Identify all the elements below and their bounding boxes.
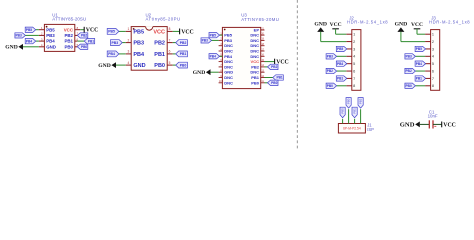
wire U3 PB0 — [265, 82, 268, 84]
svg-text:PB4: PB4 — [337, 62, 343, 66]
svg-text:PB5: PB5 — [46, 27, 55, 32]
svg-text:6: 6 — [353, 69, 355, 73]
U3 pin names — [224, 28, 260, 86]
svg-text:DNC: DNC — [250, 33, 259, 38]
svg-text:PB1: PB1 — [180, 52, 187, 56]
svg-text:GND: GND — [193, 70, 205, 76]
svg-text:DNC: DNC — [250, 38, 259, 43]
svg-text:PB2: PB2 — [81, 34, 87, 38]
J3 pins 1-8 with pin numbers — [425, 33, 434, 89]
svg-text:6: 6 — [432, 69, 434, 73]
wire GND to J2.2 — [321, 32, 347, 42]
wire U2.1 — [119, 30, 126, 32]
section divider (dashed) — [296, 0, 298, 150]
svg-text:PB3: PB3 — [112, 41, 119, 45]
svg-text:VCC: VCC — [411, 22, 423, 28]
svg-text:DNC: DNC — [250, 43, 259, 48]
net flag PB4 (J3.5) — [415, 61, 426, 66]
power flag VCC (U3) — [275, 59, 289, 66]
svg-text:GND: GND — [98, 63, 110, 69]
svg-text:VCC: VCC — [181, 29, 194, 35]
svg-text:VCC: VCC — [64, 27, 74, 32]
svg-text:PB5: PB5 — [133, 29, 144, 35]
wire PB3 to J2.4 — [337, 55, 347, 57]
net flag PB3 (U2.2) — [111, 40, 123, 46]
wire PB3 to J3.4 — [415, 55, 425, 57]
svg-text:PB3: PB3 — [46, 33, 55, 38]
wire U2.3 — [119, 53, 126, 55]
U3 left pins 1-10 with pin numbers — [219, 33, 223, 83]
svg-text:4: 4 — [128, 61, 130, 65]
net flag PB0 (J2.8) — [326, 83, 337, 88]
wire PB1 to J2.7 — [345, 77, 348, 79]
svg-text:5: 5 — [432, 62, 434, 66]
svg-text:PB5: PB5 — [341, 108, 345, 114]
svg-text:PB1: PB1 — [353, 108, 357, 114]
U1 left pins 1-4 with pin numbers — [39, 26, 45, 47]
label U2 / ATtiny85-20PU — [146, 12, 181, 21]
svg-text:7: 7 — [353, 77, 355, 81]
net flag PB1 (J2.7) — [336, 76, 347, 81]
svg-text:PB2: PB2 — [359, 98, 363, 104]
wire U1.8 to VCC — [80, 29, 84, 31]
svg-text:GND: GND — [46, 44, 56, 49]
svg-text:8: 8 — [432, 84, 434, 88]
ground flag at U1.4 — [5, 44, 39, 51]
net flag PB3 (U3.2) — [201, 38, 212, 43]
ground flag at J3.2 — [395, 22, 408, 32]
wire PB1 to J3.7 — [424, 77, 427, 79]
label U3 / ATTINY85-20MU — [241, 13, 279, 22]
svg-text:PB2: PB2 — [251, 64, 260, 69]
J2 pins 1-8 with pin numbers — [346, 33, 355, 89]
wire GND to J3.2 — [401, 32, 425, 42]
svg-text:ATtiny85-20PU: ATtiny85-20PU — [146, 17, 181, 22]
svg-text:3: 3 — [128, 50, 130, 54]
capacitor C1 plates — [429, 120, 436, 128]
power flag VCC (U1.8) — [84, 27, 98, 34]
label J3 / HDR-M-2.54_1x8 — [429, 15, 470, 24]
svg-text:VCC: VCC — [153, 29, 165, 35]
wire PB4 to J3.5 — [424, 63, 427, 65]
wire PB0 to J3.8 — [415, 85, 425, 87]
svg-text:DNC: DNC — [250, 49, 259, 54]
svg-text:HDR-M-2.54_1x8: HDR-M-2.54_1x8 — [429, 20, 470, 25]
power flag VCC (J3.1) — [411, 22, 423, 29]
svg-text:PB1: PB1 — [88, 39, 94, 43]
net flag PB1 (U1.6) — [84, 39, 95, 44]
power flag VCC (C1) — [442, 122, 456, 129]
svg-text:PB1: PB1 — [276, 76, 282, 80]
svg-text:VCC: VCC — [251, 59, 260, 64]
svg-text:1: 1 — [353, 33, 355, 37]
svg-text:6P-M-P2.54: 6P-M-P2.54 — [343, 127, 361, 131]
svg-text:PB5: PB5 — [224, 33, 233, 38]
U2 pin names — [133, 29, 165, 69]
svg-text:PB3: PB3 — [202, 39, 208, 43]
svg-text:DNC: DNC — [250, 54, 259, 59]
svg-text:PB1: PB1 — [416, 77, 422, 81]
svg-text:GND: GND — [5, 45, 17, 51]
svg-text:7: 7 — [432, 77, 434, 81]
wire VCC to J2.1 — [336, 29, 347, 34]
net flag PB2 (J2.6) — [326, 68, 337, 73]
svg-text:DNC: DNC — [224, 75, 233, 80]
svg-text:PB3: PB3 — [327, 54, 333, 58]
wire U3 VCC pin — [265, 61, 275, 63]
net flag PB0 (J1.2) — [346, 98, 351, 109]
net flag PB2 (J1.4) — [358, 98, 363, 109]
svg-text:PB4: PB4 — [108, 52, 115, 56]
ground flag at J2.2 — [314, 22, 327, 32]
wire PB2 to J3.6 — [415, 70, 425, 72]
svg-text:GND: GND — [395, 22, 408, 28]
svg-text:PB0: PB0 — [251, 80, 260, 85]
svg-text:2: 2 — [432, 40, 434, 44]
svg-text:PB5: PB5 — [337, 47, 343, 51]
svg-text:PB3: PB3 — [16, 34, 22, 38]
svg-text:3: 3 — [353, 47, 355, 51]
svg-text:DNC: DNC — [224, 59, 233, 64]
U3 right pins (EP,20-11) with pin numbers — [261, 28, 265, 83]
net flag PB4 (U2.3) — [107, 51, 119, 57]
label U1 / ATTINY85-20SU — [52, 12, 86, 21]
svg-text:DNC: DNC — [224, 49, 233, 54]
net flag PB5 (U1.1) — [25, 27, 36, 32]
svg-text:PB0: PB0 — [406, 84, 412, 88]
svg-text:2: 2 — [128, 38, 130, 42]
svg-text:DNC: DNC — [224, 64, 233, 69]
svg-text:GND: GND — [224, 70, 233, 75]
svg-text:PB2: PB2 — [64, 33, 73, 38]
svg-text:GND: GND — [400, 122, 415, 129]
power flag VCC (J2.1) — [330, 22, 342, 29]
svg-text:5: 5 — [169, 61, 171, 65]
svg-text:PB4: PB4 — [210, 54, 216, 58]
U1 right pins 8-5 with pin numbers — [75, 26, 81, 47]
svg-text:PB2: PB2 — [327, 69, 333, 73]
net flag PB0 (U1.5) — [77, 44, 88, 49]
svg-text:PB4: PB4 — [224, 54, 233, 59]
svg-text:1: 1 — [128, 27, 130, 31]
net flag PB3 (U1.2) — [15, 33, 26, 38]
label J2 / HDR-M-2.54_1x8 — [347, 15, 388, 24]
net flag PB1 (J3.7) — [415, 76, 426, 81]
svg-text:8: 8 — [353, 84, 355, 88]
connector J1 body (ISP 6P) — [338, 124, 365, 134]
net flag PB5 (J1.1) — [340, 107, 345, 118]
wire PB0 to J2.8 — [337, 85, 347, 87]
wire U1.6 — [77, 40, 84, 42]
net flag PB0 (U2.5) — [176, 62, 188, 68]
wire PB0 to J1.2 — [348, 109, 350, 123]
svg-text:ISP: ISP — [367, 127, 374, 132]
wire U2.8 to VCC — [173, 30, 180, 32]
svg-text:PB4: PB4 — [26, 39, 32, 43]
wire U3.5 — [220, 55, 223, 57]
wire U3.2 — [212, 39, 219, 41]
svg-text:PB1: PB1 — [251, 75, 260, 80]
svg-text:2: 2 — [353, 40, 355, 44]
net flag PB5 (U3.1) — [209, 33, 220, 38]
wire U2.6 — [173, 53, 176, 55]
svg-text:PB0: PB0 — [154, 63, 165, 69]
wire GND to C1 — [420, 123, 430, 125]
wire PB5 to J2.3 — [345, 48, 348, 50]
net flag PB2 (U1.7) — [77, 33, 88, 38]
svg-text:7: 7 — [169, 38, 171, 42]
net flag PB5 (J3.3) — [415, 46, 426, 51]
wire U2.7 — [173, 42, 176, 44]
svg-text:PB1: PB1 — [154, 52, 165, 58]
svg-text:8: 8 — [169, 27, 171, 31]
svg-text:DNC: DNC — [224, 43, 233, 48]
net flag PB2 (U3) — [268, 64, 279, 69]
U1 pin names — [46, 27, 74, 49]
wire U3.1 — [220, 34, 223, 36]
net flag PB3 (J3.4) — [405, 54, 416, 59]
wire U2.2 — [122, 42, 126, 44]
svg-text:PB0: PB0 — [180, 63, 187, 67]
svg-text:PB1: PB1 — [64, 39, 73, 44]
svg-text:PB2: PB2 — [406, 69, 412, 73]
svg-text:VCC: VCC — [443, 122, 456, 128]
svg-text:10nF: 10nF — [428, 114, 438, 119]
svg-text:PB0: PB0 — [81, 45, 87, 49]
svg-text:1: 1 — [432, 33, 434, 37]
net flag PB5 (J2.3) — [336, 46, 347, 51]
svg-text:DNC: DNC — [224, 80, 233, 85]
net flag PB1 (U2.6) — [176, 51, 188, 57]
net flag PB5 (U2.1) — [107, 29, 119, 35]
U2 left pins 1-4 with pin numbers — [126, 27, 132, 65]
svg-text:HDR-M-2.54_1x8: HDR-M-2.54_1x8 — [347, 20, 388, 25]
connector J2 body (HDR-M-2.54_1x8) — [352, 30, 361, 91]
net flag PB0 (J3.8) — [405, 83, 416, 88]
svg-text:ATTINY85-20MU: ATTINY85-20MU — [241, 17, 279, 22]
wire U3 PB1 — [265, 77, 273, 79]
IC U2 body (ATtiny85-20PU) — [131, 26, 167, 70]
label J1 / ISP — [367, 122, 374, 132]
IC U1 body (ATTINY85-20SU) — [44, 24, 74, 51]
net flag PB3 (J2.4) — [326, 54, 337, 59]
svg-text:PB2: PB2 — [154, 41, 165, 47]
wire U1.2 — [25, 34, 39, 36]
wire PB4 to J2.5 — [345, 63, 348, 65]
svg-text:PB0: PB0 — [64, 44, 73, 49]
svg-text:3: 3 — [432, 47, 434, 51]
wire U3 PB2 — [265, 66, 268, 68]
wire PB2 to J1.4 — [360, 109, 362, 123]
net flag PB1 (J1.3) — [352, 107, 357, 118]
connector J3 body (HDR-M-2.54_1x8) — [431, 30, 440, 91]
IC U3 body (ATTINY85-20MU) — [222, 27, 260, 88]
svg-text:PB3: PB3 — [133, 41, 144, 47]
svg-text:PB1: PB1 — [337, 77, 343, 81]
svg-text:PB3: PB3 — [224, 38, 233, 43]
svg-text:GND: GND — [133, 63, 145, 69]
svg-text:PB5: PB5 — [416, 47, 422, 51]
wire PB5 to J1.1 — [342, 119, 344, 124]
svg-text:5: 5 — [353, 62, 355, 66]
svg-text:PB3: PB3 — [406, 54, 412, 58]
svg-text:PB0: PB0 — [271, 81, 277, 85]
svg-text:6: 6 — [169, 50, 171, 54]
svg-text:PB4: PB4 — [46, 39, 55, 44]
svg-text:PB0: PB0 — [327, 84, 333, 88]
svg-text:PB2: PB2 — [180, 41, 187, 45]
wire VCC to J3.1 — [417, 29, 425, 34]
svg-text:DNC: DNC — [250, 70, 259, 75]
wire PB1 to J1.3 — [354, 119, 356, 124]
net flag PB4 (J2.5) — [336, 61, 347, 66]
wire PB2 to J2.6 — [337, 70, 347, 72]
wire PB5 to J3.3 — [424, 48, 427, 50]
wire U1.3 — [36, 40, 39, 42]
power flag VCC (U2.8) — [180, 29, 194, 36]
ground flag at U2.4 — [98, 62, 125, 69]
ground flag at C1 — [400, 122, 420, 129]
svg-text:GND: GND — [314, 22, 327, 28]
net flag PB4 (U3.5) — [209, 54, 220, 59]
svg-text:4: 4 — [353, 55, 355, 59]
label C1 / 10nF — [428, 109, 438, 118]
svg-text:ATTINY85-20SU: ATTINY85-20SU — [52, 17, 86, 22]
wire C1 to VCC — [433, 123, 442, 125]
U2 right pins 8-5 with pin numbers — [167, 27, 173, 65]
svg-text:PB5: PB5 — [210, 33, 216, 37]
svg-text:PB4: PB4 — [133, 52, 145, 58]
net flag PB1 (U3) — [273, 75, 284, 80]
svg-text:PB0: PB0 — [347, 98, 351, 104]
net flag PB2 (J3.6) — [405, 68, 416, 73]
wire U2.5 — [173, 64, 176, 66]
svg-text:PB5: PB5 — [108, 30, 115, 34]
net flag PB2 (U2.7) — [176, 40, 188, 46]
svg-text:PB5: PB5 — [26, 28, 32, 32]
svg-text:PB2: PB2 — [271, 65, 277, 69]
svg-text:PB4: PB4 — [416, 62, 422, 66]
net flag PB0 (U3) — [268, 80, 279, 85]
svg-text:4: 4 — [432, 55, 434, 59]
svg-text:VCC: VCC — [330, 22, 342, 28]
net flag PB4 (U1.3) — [25, 39, 36, 44]
wire U1.1 — [36, 29, 39, 31]
ground flag at U3.8 — [193, 69, 219, 76]
